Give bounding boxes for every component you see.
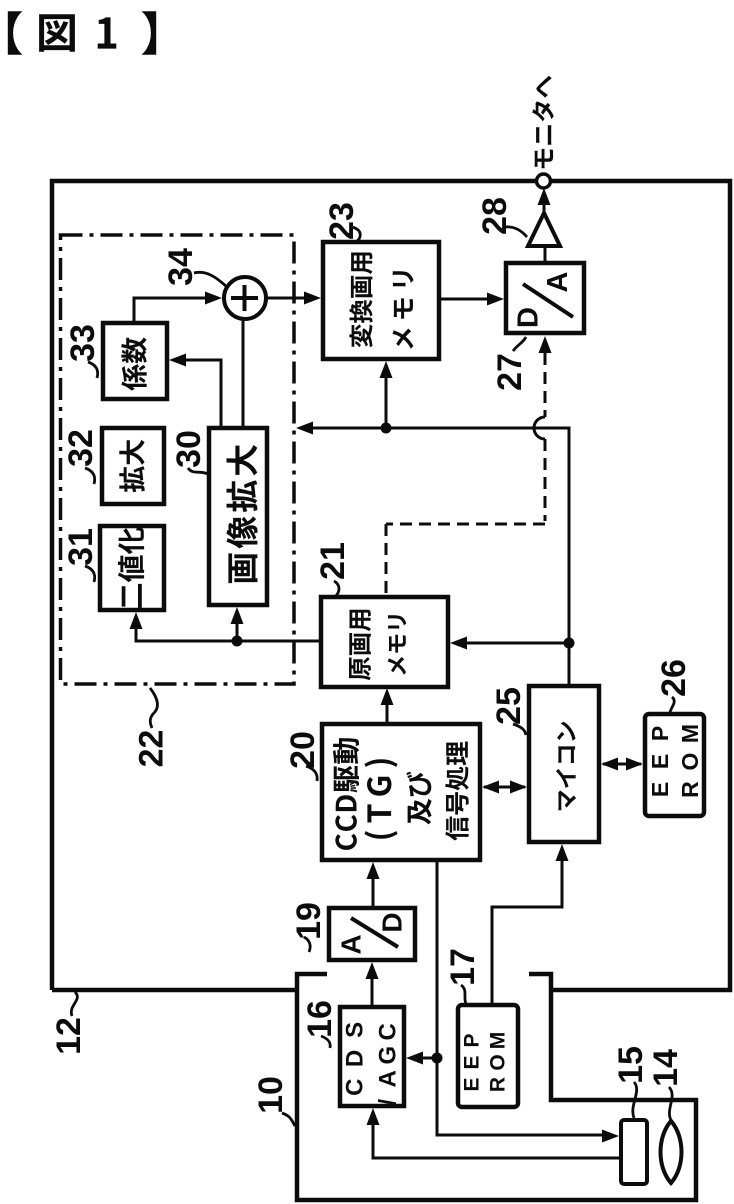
branch up into 30 bottom	[236, 623, 239, 641]
svg-text:19: 19	[290, 902, 328, 940]
mirror 15	[621, 1120, 647, 1184]
svg-text:O: O	[487, 1054, 510, 1070]
svg-text:32: 32	[62, 429, 100, 467]
svg-text:16: 16	[301, 1000, 339, 1038]
svg-text:D: D	[377, 912, 408, 932]
svg-text:21: 21	[314, 542, 352, 580]
svg-text:E: E	[461, 1055, 484, 1069]
block 23 conversion image memory	[323, 242, 439, 359]
wire mirror 15 to 16	[373, 1124, 621, 1158]
bus wire from box 22 to microcomputer 25	[311, 428, 569, 686]
enclosure box 10 (lens unit)	[297, 974, 696, 1200]
block 26 EEPROM	[645, 714, 704, 816]
svg-text:A: A	[336, 934, 367, 954]
block 27 D/A converter	[506, 263, 584, 333]
outer box 12	[52, 181, 730, 990]
wire 33 to adder 34	[134, 298, 206, 323]
wire EEPROM 17 to microcomputer 25	[492, 860, 562, 1005]
wire 20 to mirror 15	[437, 860, 603, 1135]
svg-text:12: 12	[50, 1017, 88, 1055]
svg-text:20: 20	[284, 731, 322, 769]
adder 34	[224, 277, 266, 319]
monitor label	[532, 76, 554, 169]
svg-text:25: 25	[490, 687, 528, 725]
bidirectional wire 25-26	[603, 763, 641, 766]
block 33 coefficient	[103, 323, 167, 399]
junction node under 30	[232, 636, 243, 647]
branch left into 16 right edge	[423, 1057, 437, 1060]
svg-text:O: O	[677, 753, 703, 771]
branch left into memory 21 right edge	[465, 642, 569, 645]
svg-text:C: C	[375, 1023, 402, 1040]
block 30 image enlarge	[209, 428, 267, 605]
wire 20 to 21	[386, 704, 389, 724]
wire D/A 27 to amplifier 28	[544, 246, 547, 263]
junction node bus/21	[564, 638, 575, 649]
block 20 CCD drive / signal processing	[322, 724, 480, 860]
wire 16 to 19	[371, 978, 374, 1007]
block 17 EEPROM	[458, 1005, 518, 1107]
lens 14	[661, 1121, 682, 1183]
block 16 CDS/AGC	[340, 1007, 404, 1106]
svg-text:34: 34	[162, 248, 200, 286]
wire 30 to 33	[185, 360, 221, 428]
wire 30 to adder 34	[242, 319, 245, 428]
svg-text:D: D	[342, 1050, 369, 1067]
wire adder 34 to memory 23	[266, 297, 306, 300]
block 32 enlarge	[102, 428, 164, 504]
figure title 図1	[8, 11, 22, 54]
svg-text:E: E	[461, 1077, 484, 1091]
monitor terminal node	[537, 174, 551, 188]
svg-text:31: 31	[62, 528, 100, 566]
block 31 binarize	[100, 526, 164, 610]
junction node near 16	[432, 1053, 443, 1064]
svg-text:28: 28	[476, 197, 514, 235]
svg-text:R: R	[487, 1077, 510, 1092]
bidirectional wire 20-25	[484, 786, 525, 789]
svg-text:30: 30	[170, 430, 208, 468]
svg-text:15: 15	[612, 1046, 650, 1084]
amplifier 28	[528, 213, 560, 246]
svg-text:G: G	[375, 1046, 402, 1065]
wire amplifier 28 to monitor terminal	[543, 203, 546, 213]
svg-text:/: /	[375, 1099, 402, 1106]
svg-text:M: M	[677, 724, 703, 743]
svg-text:23: 23	[323, 202, 361, 240]
svg-text:26: 26	[655, 659, 693, 697]
svg-text:S: S	[342, 1022, 369, 1038]
wire 21 to 31/30 feed	[136, 628, 321, 641]
wire 19 to 20	[372, 878, 375, 908]
svg-text:C: C	[342, 1079, 369, 1096]
branch up into memory 23 bottom	[385, 377, 388, 428]
svg-text:33: 33	[64, 324, 102, 362]
svg-text:10: 10	[252, 1076, 290, 1114]
block 21 original image memory	[321, 597, 448, 687]
svg-text:R: R	[677, 781, 703, 798]
svg-text:E: E	[647, 782, 673, 797]
block 25 microcomputer	[529, 686, 599, 842]
svg-text:P: P	[647, 726, 673, 741]
svg-text:A: A	[542, 271, 574, 292]
svg-text:17: 17	[444, 948, 482, 986]
dash-dot box 22	[61, 235, 295, 684]
dashed control wire from D/A 27 to memory 21	[544, 353, 547, 417]
svg-text:P: P	[461, 1033, 484, 1047]
svg-text:E: E	[647, 754, 673, 769]
block 19 A/D converter	[329, 908, 415, 960]
svg-text:A: A	[375, 1070, 402, 1087]
svg-text:22: 22	[133, 730, 171, 768]
svg-text:M: M	[487, 1032, 510, 1050]
svg-text:27: 27	[491, 353, 529, 391]
junction node bus/23	[381, 423, 392, 434]
svg-text:14: 14	[647, 1049, 685, 1087]
wire memory 23 to D/A 27	[439, 298, 489, 301]
svg-text:D: D	[513, 307, 545, 328]
